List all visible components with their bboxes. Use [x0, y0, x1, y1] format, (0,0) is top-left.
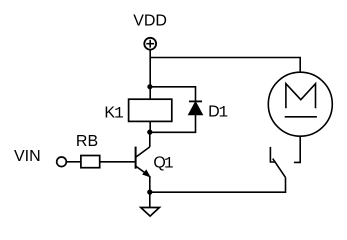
svg-text:VDD: VDD: [133, 13, 167, 30]
svg-text:VIN: VIN: [14, 148, 41, 165]
svg-text:K1: K1: [104, 104, 123, 122]
wire base: [100, 161, 135, 163]
wire diode anode to collector node: [150, 115, 196, 133]
relay contact switch left terminal: [270, 147, 275, 162]
wire junction to diode cathode: [150, 87, 196, 101]
svg-text:D1: D1: [208, 103, 228, 121]
svg-text:Q1: Q1: [153, 154, 173, 172]
wire relay coil bottom: [149, 121, 151, 132]
wire terminal to resistor: [66, 161, 81, 163]
wire emitter to ground: [149, 192, 151, 207]
relay coil K1: [129, 99, 172, 121]
node collector junction: [147, 130, 152, 135]
transistor Q1: [136, 132, 150, 192]
motor M1: [268, 72, 332, 136]
svg-text:RB: RB: [76, 133, 98, 150]
resistor RB: [81, 156, 100, 168]
wire bottom rail to switch: [150, 177, 286, 192]
relay contact switch blade: [273, 159, 286, 178]
wire VDD vertical to relay coil: [149, 50, 151, 100]
node relay-diode junction: [147, 84, 152, 89]
terminal VIN: [57, 157, 67, 167]
power terminal VDD: [144, 38, 156, 50]
node emitter junction: [147, 190, 152, 195]
ground: [141, 208, 160, 217]
relay contact switch right terminal: [294, 136, 300, 162]
wire top rail to motor: [150, 58, 300, 73]
diode D1: [189, 101, 203, 114]
